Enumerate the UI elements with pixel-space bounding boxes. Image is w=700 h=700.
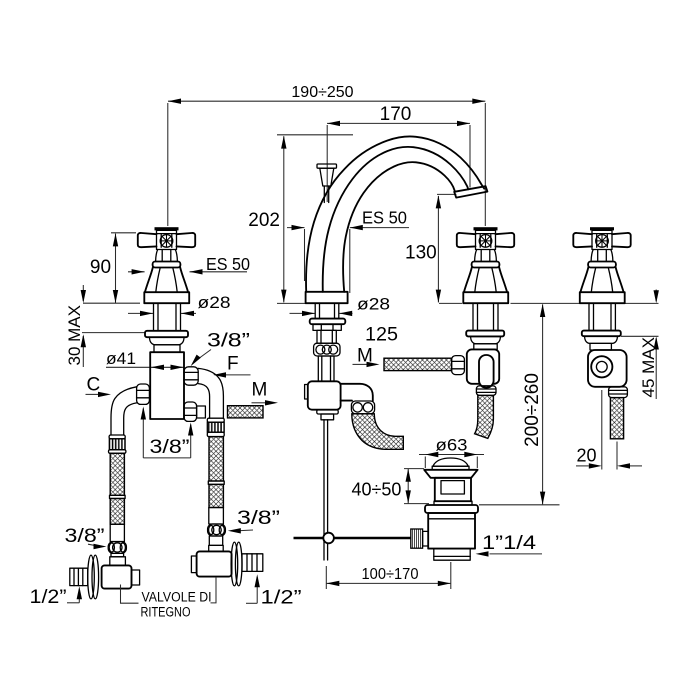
svg-text:202: 202	[248, 210, 280, 231]
hose C coupling ball nut	[108, 542, 126, 554]
drain rod connector	[423, 531, 429, 546]
spout middle curve	[323, 147, 469, 292]
right check valve inlet tube	[209, 536, 222, 545]
tee bottom flange	[317, 410, 338, 414]
hose C bend	[111, 387, 137, 435]
svg-text:3/8”: 3/8”	[150, 437, 190, 458]
braided hose from tee (to drain supply)	[352, 414, 404, 450]
right check valve 1/2" stub	[242, 554, 263, 572]
svg-text:200÷260: 200÷260	[522, 373, 543, 447]
left check valve right cap	[132, 570, 140, 585]
dimension 20	[576, 390, 642, 470]
tee left stub	[305, 385, 308, 400]
far-right outlet nut	[609, 387, 628, 398]
svg-text:3/8”: 3/8”	[237, 508, 280, 529]
spout base	[306, 292, 348, 303]
M braided hose cross-section (cut)	[228, 406, 264, 418]
right check valve wall flange	[231, 542, 242, 586]
svg-text:ø63: ø63	[436, 436, 468, 455]
label 3/8" bracket (left body lower ports)	[141, 407, 194, 459]
spout deck washer	[310, 319, 346, 325]
dimension ES 50 (spout hex)	[287, 208, 409, 294]
hose F coupling ball nut	[208, 524, 226, 536]
drain rod knurled knob	[411, 529, 423, 548]
svg-text:100÷170: 100÷170	[362, 566, 419, 583]
svg-text:M: M	[252, 380, 268, 401]
upper right port nut (F)	[184, 367, 198, 385]
dimension 190÷250	[168, 84, 486, 226]
hose F fitting bands	[207, 418, 224, 422]
dimension ø28 (left handle shank)	[128, 293, 231, 316]
hose F braided section	[209, 437, 223, 481]
dimension 45 MAX	[621, 290, 659, 400]
svg-text:1/2”: 1/2”	[30, 587, 67, 608]
tee body (pop-up)	[308, 381, 341, 409]
spout tip aerator band	[454, 186, 487, 197]
spout coupling nut with balls	[314, 343, 340, 356]
svg-text:ø28: ø28	[357, 295, 390, 314]
spout diverter knob	[317, 164, 337, 203]
svg-text:VALVOLE DI: VALVOLE DI	[142, 590, 212, 605]
left handle backnut	[150, 337, 185, 345]
mid-right braided hose down	[475, 395, 494, 438]
svg-text:40÷50: 40÷50	[352, 480, 402, 500]
dimension ø28 (spout shank)	[290, 295, 391, 317]
drain cap dome	[432, 458, 469, 470]
left check valve wall flange	[88, 555, 99, 599]
hose F bend	[198, 368, 223, 418]
dimension ES 50 (left handle)	[128, 254, 250, 275]
label C with arrow	[86, 375, 112, 398]
right check valve top port	[209, 545, 224, 551]
svg-text:F: F	[227, 354, 239, 375]
drain funnel top flange	[424, 470, 477, 478]
label F with arrow	[213, 354, 251, 378]
dimension 30 MAX	[65, 285, 145, 367]
hose C plain sleeve	[110, 524, 124, 541]
mid-right inlet nut	[452, 356, 465, 375]
far-right backnut	[585, 336, 618, 343]
label 3/8" (left valve)	[65, 526, 107, 549]
mid-right outlet nut	[476, 386, 496, 396]
deck line right of far-right handle	[625, 302, 659, 304]
far-right valve boss inner	[596, 361, 607, 372]
dimension 40÷50	[352, 469, 430, 504]
left check valve 1/2" stub	[70, 568, 88, 585]
mid-right shank	[473, 303, 498, 330]
svg-text:90: 90	[90, 257, 111, 278]
deck line left of left handle	[83, 302, 140, 304]
spout inner curve	[343, 162, 455, 292]
dimension ø41	[106, 349, 184, 370]
dimension 130	[405, 194, 456, 302]
drain body lip	[434, 501, 472, 505]
far-right collar	[590, 343, 611, 350]
left valve body ø41	[150, 352, 184, 419]
spout threaded tail	[317, 330, 336, 343]
mid-right deck flange	[466, 331, 504, 337]
left handle collar	[154, 345, 180, 352]
label 1/2" (right)	[246, 574, 302, 608]
label M (left assembly outlet)	[252, 380, 279, 406]
hose F plain sleeve	[209, 508, 224, 525]
svg-text:RITEGNO: RITEGNO	[141, 605, 191, 620]
dimension 100÷170	[326, 562, 451, 589]
label 1/2" (left)	[30, 586, 83, 608]
mid-right valve body	[467, 349, 499, 383]
mid-right backnut	[471, 336, 501, 343]
label 3/8" (right valve)	[228, 508, 280, 534]
far-right shank	[589, 303, 615, 330]
dimension ø63	[419, 436, 484, 469]
deck line left of mid-right handle	[439, 302, 462, 304]
pop-up rod (vertical)	[324, 420, 328, 560]
svg-text:ES 50: ES 50	[362, 208, 407, 228]
tee bottom tube	[321, 414, 334, 420]
left handle deck flange	[145, 331, 188, 337]
drain lower body	[428, 513, 475, 549]
svg-text:ES 50: ES 50	[206, 254, 250, 274]
tee right arm	[341, 384, 373, 401]
mid-right collar	[474, 344, 497, 350]
dimension 202	[248, 135, 353, 303]
drain upper body	[435, 478, 471, 501]
svg-text:20: 20	[577, 446, 597, 466]
svg-text:190÷250: 190÷250	[291, 84, 353, 101]
pop-up horizontal rod	[294, 537, 412, 540]
svg-text:3/8”: 3/8”	[207, 331, 250, 352]
far-right elbow valve body	[588, 350, 627, 387]
deck line between 202 and spout base	[277, 302, 306, 304]
svg-text:130: 130	[405, 243, 437, 264]
leader right valve to caption	[211, 577, 217, 603]
mid-right valve capsule	[479, 355, 494, 388]
right check valve left cap	[191, 556, 196, 573]
tee arm nut	[351, 401, 374, 414]
svg-text:170: 170	[380, 104, 412, 125]
dimension 200÷260	[479, 304, 560, 505]
left check valve top port	[110, 557, 126, 566]
dimension 90	[90, 233, 136, 303]
far-right handle (cross + bell)	[573, 227, 630, 303]
svg-text:30 MAX: 30 MAX	[65, 305, 84, 365]
horizontal braided hose (M supply)	[384, 358, 452, 370]
right check valve body	[197, 551, 232, 576]
deck line between mid-right handle and far-right handle	[511, 302, 580, 304]
left check valve inlet tube	[111, 553, 124, 556]
svg-text:3/8”: 3/8”	[65, 526, 105, 547]
rod ball joint	[323, 533, 334, 544]
svg-text:ø41: ø41	[106, 349, 136, 368]
label M (center, to spout feed)	[353, 346, 380, 368]
spout backnut	[313, 324, 341, 330]
lower right port nut (M outlet)	[184, 402, 197, 421]
dimension 170	[327, 104, 470, 202]
far-right braided hose down	[610, 398, 623, 439]
svg-text:1/2”: 1/2”	[261, 588, 302, 609]
far-right deck flange	[582, 331, 621, 337]
spout outer curve	[306, 136, 484, 291]
drain tailpiece 1"1/4	[434, 549, 470, 561]
drain washer	[425, 505, 478, 513]
mid-right handle (cross + bell)	[457, 227, 514, 303]
spout supply tube	[318, 356, 334, 381]
hose C fitting bands	[109, 435, 125, 439]
left handle shank ø28	[154, 303, 181, 331]
left check valve body	[102, 565, 132, 588]
svg-text:1”1/4: 1”1/4	[482, 533, 537, 554]
lower left port nut (C inlet)	[137, 384, 150, 404]
svg-text:125: 125	[365, 325, 398, 346]
hose C braided section	[110, 453, 124, 495]
M outlet stub	[197, 406, 206, 418]
left handle (cross + bell)	[138, 227, 195, 303]
leader left valve to caption	[121, 585, 139, 604]
spout shank	[315, 303, 339, 318]
svg-text:ø28: ø28	[198, 293, 231, 312]
label 1"1/4	[476, 533, 543, 557]
far-right valve boss outer	[591, 356, 612, 377]
label 3/8" (left handle upper port)	[191, 331, 250, 367]
drain overflow window	[441, 481, 464, 494]
